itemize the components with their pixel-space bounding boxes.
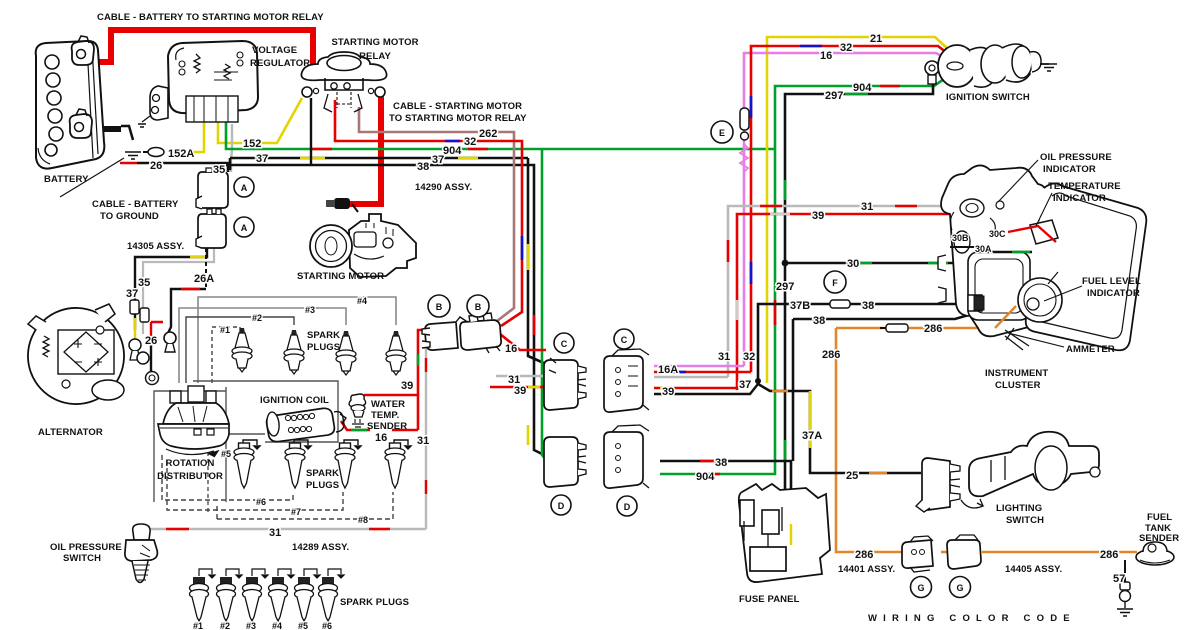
svg-text:OIL PRESSURE: OIL PRESSURE	[1040, 152, 1112, 163]
svg-text:37: 37	[739, 379, 751, 391]
wire 37 yellow stripes lower	[135, 257, 207, 339]
connector pill 152A	[143, 148, 164, 157]
spark plug wire #2	[186, 317, 294, 383]
svg-text:31: 31	[269, 527, 281, 539]
ignition switch	[938, 44, 1049, 87]
wire 16 red to ignition coil	[341, 421, 418, 430]
ground at ignition switch	[1041, 64, 1057, 71]
wire 152A yellow	[168, 122, 204, 152]
connector pill on 37B	[824, 300, 850, 308]
svg-text:FUEL: FUEL	[1147, 512, 1172, 523]
wire 38 black horizontal run	[218, 165, 546, 456]
cable battery to ground (thick black)	[88, 126, 121, 132]
wire 286 orange vertical and bottom run	[836, 328, 902, 552]
spark plug wire #4	[198, 297, 396, 383]
hook arrows above middle spark plugs	[243, 440, 411, 449]
wire 37B black to cluster	[758, 300, 972, 376]
svg-text:D: D	[558, 501, 565, 511]
wire 39 yellow stripe	[660, 387, 674, 390]
spark plug wire #1 dashed	[212, 327, 240, 383]
svg-text:STARTING MOTOR: STARTING MOTOR	[331, 37, 418, 48]
connector G left	[902, 536, 933, 572]
connector A lower	[196, 209, 226, 248]
black wire from connector C to junction	[654, 384, 758, 394]
svg-text:26: 26	[150, 160, 162, 172]
connector hook at oil pressure switch	[135, 527, 147, 535]
lighting switch body	[961, 432, 1100, 508]
wire 31 gray vertical from connector B	[425, 346, 427, 529]
svg-text:WIRING COLOR CODE: WIRING COLOR CODE	[868, 613, 1076, 624]
wire 16A pink connector C to vertical	[654, 365, 744, 368]
wire 16 pink fuse at circuit breaker E	[740, 108, 749, 140]
spark plug top #3	[336, 331, 356, 375]
wire 32 blue stripes	[445, 141, 522, 260]
svg-text:REGULATOR: REGULATOR	[250, 58, 310, 69]
wire 904 red stripe near switch	[880, 85, 900, 88]
connector G right	[947, 535, 981, 569]
circle D left	[551, 495, 571, 515]
connector D left	[544, 437, 586, 487]
svg-text:31: 31	[861, 201, 873, 213]
svg-text:904: 904	[443, 145, 462, 157]
wire 30C red diagonal	[1008, 226, 1056, 242]
wire 38 red stripe row D	[700, 460, 718, 463]
alternator terminal studs	[129, 300, 159, 385]
svg-text:#1: #1	[220, 325, 230, 335]
svg-text:#7: #7	[291, 507, 301, 517]
svg-text:38: 38	[715, 457, 727, 469]
spark plug bottom #6	[319, 577, 338, 621]
svg-text:RELAY: RELAY	[359, 51, 391, 62]
voltage regulator body	[168, 41, 258, 122]
wire 286 into fuel gauge	[995, 306, 1016, 328]
svg-text:#3: #3	[246, 621, 256, 630]
svg-text:#6: #6	[322, 621, 332, 630]
leader line to CABLE - BATTERY TO GROUND text	[60, 158, 124, 197]
circle B left	[428, 295, 450, 317]
wire 16 pink vertical and to switch	[744, 53, 947, 366]
connector B right	[460, 313, 501, 353]
circle C right	[614, 329, 634, 349]
svg-text:#5: #5	[298, 621, 308, 630]
wire number labels right top	[718, 33, 942, 442]
svg-text:39: 39	[401, 380, 413, 392]
wire 32 blue stripes vertical	[751, 46, 822, 284]
black wire relay terminal down	[310, 98, 312, 165]
connector A upper	[196, 168, 228, 209]
wire 16 red between connectors B and C	[500, 334, 546, 350]
svg-text:38: 38	[813, 315, 825, 327]
svg-text:FUEL LEVEL: FUEL LEVEL	[1082, 276, 1141, 287]
svg-text:#2: #2	[220, 621, 230, 630]
svg-text:#3: #3	[305, 305, 315, 315]
connector D right	[604, 425, 649, 488]
spark plug bottom #2	[217, 577, 236, 621]
spark plug mid #8	[385, 443, 405, 488]
wire 37 orange stripe	[772, 390, 788, 393]
svg-text:C: C	[561, 339, 568, 349]
svg-text:IGNITION SWITCH: IGNITION SWITCH	[946, 92, 1030, 103]
wire 31 white horizontal to cluster	[728, 198, 965, 377]
svg-text:D: D	[624, 502, 631, 512]
svg-text:PLUGS: PLUGS	[307, 342, 340, 353]
circle E	[711, 121, 733, 143]
svg-text:21: 21	[870, 33, 882, 45]
svg-text:CABLE - STARTING MOTOR: CABLE - STARTING MOTOR	[393, 101, 522, 112]
circle A lower	[234, 217, 254, 237]
svg-text:30C: 30C	[989, 229, 1006, 239]
wire 39 green stripe	[417, 354, 420, 366]
svg-text:14401 ASSY.: 14401 ASSY.	[838, 564, 895, 575]
ignition coil	[266, 408, 346, 443]
svg-text:14290 ASSY.: 14290 ASSY.	[415, 182, 472, 193]
svg-text:16: 16	[505, 343, 517, 355]
ground at fuel tank sender	[1117, 609, 1133, 616]
wire 38 black to cluster	[793, 314, 972, 319]
svg-text:E: E	[719, 128, 725, 138]
svg-text:16: 16	[375, 432, 387, 444]
svg-text:SWITCH: SWITCH	[63, 553, 101, 564]
wire 26 black with red end	[137, 163, 228, 172]
wire 904 red stripes	[310, 148, 488, 151]
svg-text:38: 38	[862, 300, 874, 312]
spark plug wire #7 dashed	[167, 460, 343, 510]
wire 31 red stripes	[728, 206, 917, 262]
circle A upper	[234, 177, 254, 197]
svg-text:#5: #5	[221, 449, 231, 459]
wire 39 red from connector C	[654, 387, 737, 390]
svg-text:INDICATOR: INDICATOR	[1087, 288, 1140, 299]
wire 31 white between B and C	[496, 375, 546, 377]
hook arrows above bottom spark plugs	[199, 569, 344, 578]
svg-text:SENDER: SENDER	[367, 421, 407, 432]
svg-text:TO GROUND: TO GROUND	[100, 211, 159, 222]
wire 26A black run with red stripe	[168, 289, 206, 333]
svg-text:CLUSTER: CLUSTER	[995, 380, 1041, 391]
wire 35 white connector A to alternator	[143, 246, 214, 334]
ring terminal 26A	[164, 332, 176, 352]
wire number labels left area	[126, 128, 497, 347]
lighting switch connector block	[916, 458, 960, 512]
svg-text:286: 286	[855, 549, 873, 561]
wire 37 vertical to connector C	[528, 158, 546, 364]
wire 904 green regulator run	[226, 122, 775, 149]
svg-text:#1: #1	[193, 621, 203, 630]
wire 39 red water temp sender riser	[418, 330, 426, 430]
wire 32 red vertical to switch	[751, 46, 947, 372]
wire number labels middle	[269, 343, 678, 553]
junction dot 297/30	[782, 260, 789, 267]
wire 21 yellow to ignition switch	[767, 37, 948, 383]
svg-text:152: 152	[243, 138, 261, 150]
wire 26 red tip	[120, 162, 137, 165]
battery	[36, 41, 105, 169]
svg-text:PLUGS: PLUGS	[306, 480, 339, 491]
fuel tank sender	[1136, 542, 1174, 565]
svg-text:#4: #4	[357, 296, 367, 306]
wire 38 row D to fuse panel	[660, 461, 791, 540]
svg-text:SPARK PLUGS: SPARK PLUGS	[340, 597, 409, 608]
spark plug mid #6	[285, 443, 305, 488]
svg-text:INDICATOR: INDICATOR	[1053, 193, 1106, 204]
svg-text:37: 37	[126, 288, 138, 300]
svg-text:INDICATOR: INDICATOR	[1043, 164, 1096, 175]
wire 297 black to switch	[785, 80, 933, 497]
svg-text:152A: 152A	[168, 148, 194, 160]
wire 904 vertical to ignition switch	[775, 79, 944, 149]
svg-text:AMMETER: AMMETER	[1066, 344, 1115, 355]
wire 30 black to cluster	[785, 258, 970, 263]
svg-text:FUSE PANEL: FUSE PANEL	[739, 594, 800, 605]
svg-text:#2: #2	[252, 313, 262, 323]
connector C left	[544, 358, 586, 410]
voltage regulator left bracket	[138, 86, 168, 127]
box around distributor	[154, 387, 226, 502]
box around ignition coil	[193, 381, 338, 442]
svg-text:297: 297	[776, 281, 794, 293]
svg-text:904: 904	[853, 82, 872, 94]
svg-text:286: 286	[924, 323, 942, 335]
wire 26 red to alternator	[151, 322, 163, 345]
svg-text:INSTRUMENT: INSTRUMENT	[985, 368, 1048, 379]
circle D right	[617, 496, 637, 516]
svg-text:SENDER: SENDER	[1139, 533, 1179, 544]
svg-text:CABLE - BATTERY TO STARTING MO: CABLE - BATTERY TO STARTING MOTOR RELAY	[97, 12, 324, 23]
wire 904 vertical down to fuse panel row	[660, 149, 775, 474]
spark plug top #2	[284, 330, 304, 374]
svg-text:262: 262	[479, 128, 497, 140]
svg-text:#4: #4	[272, 621, 282, 630]
svg-text:297: 297	[825, 90, 843, 102]
svg-text:32: 32	[464, 136, 476, 148]
wire 32 blue stripe	[672, 371, 686, 374]
wire 30 green stripes	[850, 262, 948, 265]
svg-text:G: G	[917, 583, 924, 593]
wire 262 brown relay to connector B	[359, 107, 514, 321]
wire 57 fuel tank sender ground lead	[1124, 560, 1126, 582]
spark plug bottom #4	[269, 577, 288, 621]
spark plug bottom #1	[190, 577, 209, 621]
fuse panel	[739, 484, 830, 582]
wire 37 yellow stripes	[300, 157, 478, 160]
svg-text:31: 31	[417, 435, 429, 447]
wire 297 green stripes	[785, 94, 868, 462]
svg-text:WATER: WATER	[371, 399, 405, 410]
spark plug wire #3	[179, 308, 346, 383]
circle F	[824, 271, 846, 293]
connector on starting motor cable	[326, 198, 358, 212]
svg-text:14289 ASSY.: 14289 ASSY.	[292, 542, 349, 553]
circle C left	[554, 333, 574, 353]
wire 39 white stripes	[737, 214, 790, 320]
ammeter leader lines	[998, 160, 1082, 347]
svg-text:35: 35	[138, 277, 150, 289]
svg-text:30A: 30A	[975, 244, 992, 254]
wire 35 white regulator to connector A	[231, 124, 232, 172]
wire 39 red to cluster	[737, 214, 1030, 390]
svg-text:C: C	[621, 335, 628, 345]
wire 31 gray bottom run to oil pressure switch	[144, 529, 426, 534]
spark plug wire #8 dashed	[217, 492, 393, 519]
svg-text:ALTERNATOR: ALTERNATOR	[38, 427, 103, 438]
svg-text:G: G	[956, 583, 963, 593]
spark plug wire stub dashed below distributor	[207, 452, 209, 515]
svg-text:B: B	[475, 302, 482, 312]
svg-text:16A: 16A	[658, 364, 678, 376]
wire 39 branch to water temp sender	[364, 394, 418, 397]
wire 32 red relay run	[335, 100, 522, 326]
svg-text:39: 39	[662, 386, 674, 398]
wire 31 white from connector C	[654, 376, 728, 378]
ground clamp and symbol at battery	[121, 126, 141, 159]
svg-text:32: 32	[840, 42, 852, 54]
svg-text:14405 ASSY.: 14405 ASSY.	[1005, 564, 1062, 575]
svg-text:35: 35	[213, 164, 225, 176]
battery lower terminal clamp	[70, 109, 92, 138]
svg-text:286: 286	[1100, 549, 1118, 561]
instrument cluster outline	[938, 165, 1146, 350]
wire 904 red stripe lower	[700, 300, 775, 474]
wire 286 orange to cluster	[836, 303, 1020, 328]
svg-text:#8: #8	[358, 515, 368, 525]
svg-text:LIGHTING: LIGHTING	[996, 503, 1042, 514]
water temp sender	[349, 394, 366, 427]
spark plug top #1	[232, 328, 252, 372]
wire 39 yellow stripe	[528, 386, 540, 389]
wire 39 red between B and C	[490, 386, 546, 389]
wire 31 red stripes on vertical	[425, 358, 427, 494]
svg-text:30: 30	[847, 258, 859, 270]
svg-text:B: B	[436, 302, 443, 312]
svg-text:A: A	[241, 183, 248, 193]
wire 37 black/yellow horizontal run	[230, 157, 528, 160]
svg-text:286: 286	[822, 349, 840, 361]
svg-text:25: 25	[846, 470, 858, 482]
ignition switch ring terminal	[925, 61, 939, 84]
wire 37A yellow	[809, 391, 812, 448]
svg-text:STARTING MOTOR: STARTING MOTOR	[297, 271, 384, 282]
svg-text:39: 39	[514, 385, 526, 397]
svg-text:IGNITION COIL: IGNITION COIL	[260, 395, 329, 406]
wire 30B stub	[950, 246, 975, 248]
svg-text:TO STARTING MOTOR RELAY: TO STARTING MOTOR RELAY	[389, 113, 527, 124]
svg-text:DISTRIBUTOR: DISTRIBUTOR	[157, 471, 223, 482]
svg-text:OIL PRESSURE: OIL PRESSURE	[50, 542, 122, 553]
svg-text:TEMPERATURE: TEMPERATURE	[1048, 181, 1121, 192]
circle G left	[911, 577, 932, 598]
starting motor	[310, 214, 416, 277]
starting motor relay body	[301, 52, 386, 112]
cable starting motor to starting motor relay (thick red)	[348, 92, 381, 204]
svg-text:VOLTAGE: VOLTAGE	[252, 45, 297, 56]
svg-text:SPARK: SPARK	[306, 468, 339, 479]
svg-text:37B: 37B	[790, 300, 810, 312]
wire 31 red stripes bottom	[166, 528, 390, 530]
svg-text:SWITCH: SWITCH	[1006, 515, 1044, 526]
circle G right	[950, 577, 971, 598]
svg-text:32: 32	[743, 351, 755, 363]
spark plug wire #6 dashed	[162, 455, 293, 500]
svg-text:57: 57	[1113, 573, 1125, 585]
wire from distributor to coil	[214, 433, 265, 435]
alternator	[28, 304, 124, 404]
svg-text:F: F	[832, 278, 838, 288]
wire 38 vertical to fuse panel	[792, 319, 795, 461]
distributor cap	[158, 386, 229, 457]
spark plug mid #7	[335, 443, 355, 488]
yellow stripe inside fuse panel wire	[790, 524, 792, 545]
spark plug mid #5	[234, 443, 254, 488]
circle B right	[467, 295, 489, 317]
wire 16 green stripe	[351, 429, 367, 432]
wire 152 yellow regulator to relay	[218, 98, 302, 143]
junction dot 37	[755, 378, 761, 384]
oil pressure switch	[125, 524, 158, 583]
cable battery to starting motor relay (thick red)	[88, 30, 313, 74]
svg-text:31: 31	[718, 351, 730, 363]
svg-text:30B: 30B	[952, 233, 969, 243]
connector B left	[422, 317, 466, 350]
svg-text:904: 904	[696, 471, 715, 483]
fuel tank sender ground bulb	[1120, 582, 1131, 608]
connector C right	[604, 349, 649, 412]
svg-text:TEMP.: TEMP.	[371, 410, 399, 421]
wire 37 connector A to alternator	[135, 246, 207, 330]
wire 37 junction to lighting switch as 25	[758, 376, 921, 473]
svg-text:ROTATION: ROTATION	[166, 458, 215, 469]
spark plug top #4	[386, 331, 406, 375]
svg-text:37A: 37A	[802, 430, 822, 442]
svg-text:A: A	[241, 223, 248, 233]
spark plug bottom #3	[243, 577, 262, 621]
svg-text:39: 39	[812, 210, 824, 222]
wire 32 red from connector C	[654, 371, 751, 374]
connector pill on 286	[880, 324, 908, 332]
wire 38 red stripe on vertical	[533, 315, 536, 335]
wire 26A dashed from connector A	[205, 248, 207, 289]
wire 25 orange stripe	[869, 472, 887, 475]
svg-text:16: 16	[820, 50, 832, 62]
spark plug bottom #5	[295, 577, 314, 621]
svg-text:14305 ASSY.: 14305 ASSY.	[127, 241, 184, 252]
svg-text:38: 38	[417, 161, 429, 173]
battery top terminal clamp	[72, 36, 94, 65]
svg-text:BATTERY: BATTERY	[44, 174, 89, 185]
wire 30A black with green	[975, 251, 1032, 253]
wire 16 pink resistor zigzag	[740, 144, 748, 172]
svg-text:SPARK: SPARK	[307, 330, 340, 341]
svg-text:CABLE - BATTERY: CABLE - BATTERY	[92, 199, 179, 210]
svg-text:37: 37	[256, 153, 268, 165]
wire 904 branch down to connector D	[542, 149, 548, 462]
svg-text:26A: 26A	[194, 273, 214, 285]
svg-text:#6: #6	[256, 497, 266, 507]
svg-text:26: 26	[145, 335, 157, 347]
